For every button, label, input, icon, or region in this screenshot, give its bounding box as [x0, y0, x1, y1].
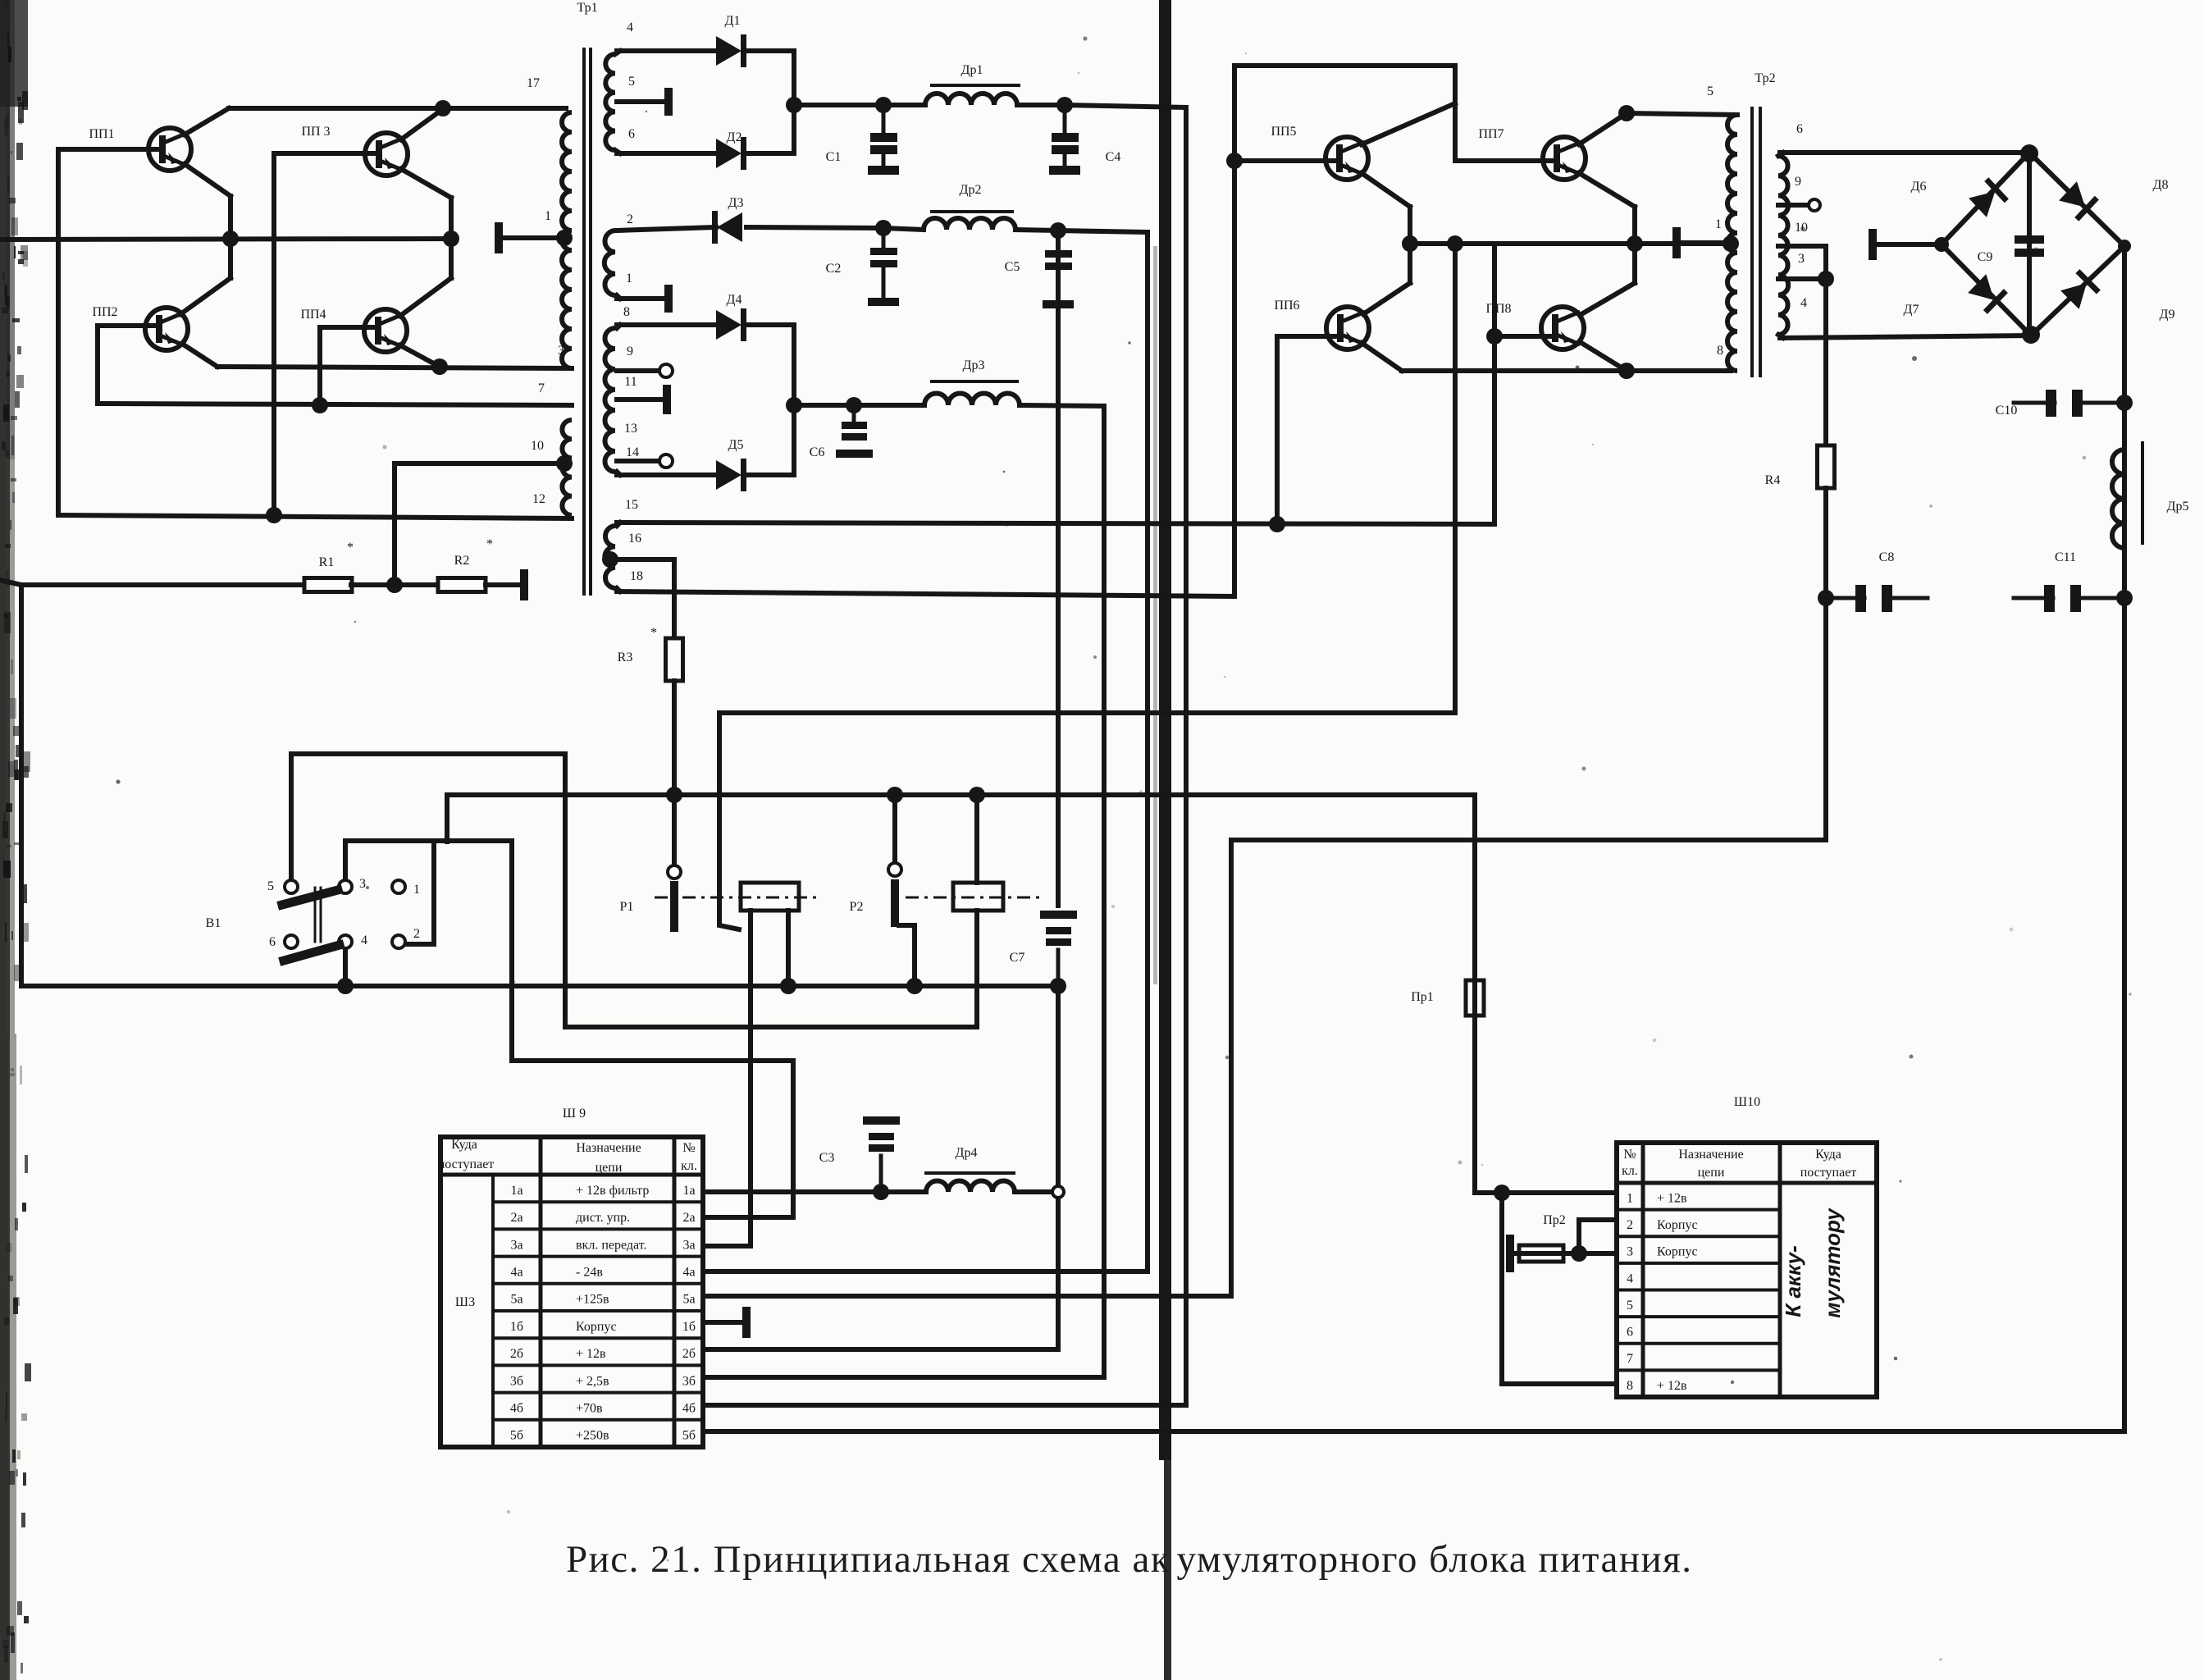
- svg-text:3а: 3а: [682, 1238, 695, 1252]
- svg-text:5: 5: [628, 75, 635, 89]
- svg-text:5: 5: [267, 879, 274, 893]
- svg-text:2б: 2б: [682, 1347, 696, 1361]
- svg-text:Др2: Др2: [960, 183, 982, 197]
- svg-text:R4: R4: [1765, 473, 1781, 487]
- svg-text:3: 3: [1798, 252, 1805, 266]
- svg-text:Тр2: Тр2: [1755, 71, 1775, 85]
- svg-text:Д8: Д8: [2153, 178, 2169, 192]
- svg-text:ПП4: ПП4: [300, 308, 326, 322]
- svg-text:+ 12в: + 12в: [1657, 1191, 1687, 1205]
- svg-text:R2: R2: [454, 554, 470, 568]
- svg-text:Др1: Др1: [961, 63, 983, 77]
- svg-text:14: 14: [626, 445, 639, 459]
- svg-text:1а: 1а: [682, 1184, 695, 1198]
- svg-text:5б: 5б: [510, 1429, 523, 1443]
- svg-text:ПП2: ПП2: [92, 305, 117, 319]
- svg-text:поступает: поступает: [438, 1157, 495, 1171]
- svg-text:R3: R3: [618, 651, 633, 664]
- svg-text:ПП7: ПП7: [1478, 127, 1504, 141]
- svg-text:Д7: Д7: [1904, 303, 1919, 317]
- svg-text:С7: С7: [1010, 951, 1025, 965]
- svg-text:4: 4: [1627, 1271, 1633, 1285]
- svg-text:8: 8: [623, 305, 630, 319]
- svg-text:- 24в: - 24в: [576, 1266, 603, 1280]
- svg-text:№: №: [1623, 1148, 1636, 1162]
- svg-text:13: 13: [624, 422, 637, 436]
- svg-text:Др3: Др3: [963, 358, 985, 372]
- svg-text:6: 6: [269, 935, 276, 949]
- svg-text:Д5: Д5: [728, 438, 744, 452]
- svg-text:В1: В1: [206, 916, 221, 930]
- svg-text:С10: С10: [1996, 404, 2018, 418]
- svg-text:Ш 9: Ш 9: [563, 1107, 586, 1121]
- svg-text:1б: 1б: [682, 1320, 696, 1334]
- svg-text:С5: С5: [1005, 260, 1020, 274]
- svg-text:1: 1: [545, 209, 551, 223]
- svg-text:С6: С6: [810, 445, 825, 459]
- svg-text:Др5: Др5: [2167, 500, 2189, 514]
- svg-text:+250в: +250в: [576, 1429, 609, 1443]
- svg-text:1: 1: [1627, 1191, 1633, 1205]
- svg-text:2: 2: [627, 212, 633, 226]
- svg-text:5а: 5а: [510, 1293, 522, 1307]
- svg-text:4б: 4б: [510, 1402, 523, 1416]
- svg-text:8: 8: [1717, 344, 1723, 358]
- svg-text:кл.: кл.: [681, 1159, 697, 1173]
- svg-text:1: 1: [1715, 217, 1722, 231]
- svg-text:+ 12в фильтр: + 12в фильтр: [576, 1184, 649, 1198]
- svg-text:7: 7: [538, 381, 545, 395]
- svg-text:цепи: цепи: [595, 1161, 623, 1175]
- svg-text:ПП1: ПП1: [89, 127, 114, 141]
- svg-text:Куда: Куда: [1815, 1148, 1841, 1162]
- svg-text:*: *: [486, 537, 493, 551]
- svg-text:вкл. передат.: вкл. передат.: [576, 1238, 646, 1252]
- svg-text:2а: 2а: [510, 1211, 522, 1225]
- svg-text:Корпус: Корпус: [1657, 1218, 1698, 1232]
- svg-text:С3: С3: [819, 1151, 835, 1165]
- svg-text:С8: С8: [1879, 550, 1895, 564]
- svg-text:3: 3: [1627, 1245, 1633, 1259]
- svg-text:7: 7: [1627, 1352, 1633, 1366]
- svg-text:Р2: Р2: [850, 900, 864, 914]
- svg-text:К акку-: К акку-: [1781, 1245, 1805, 1317]
- svg-text:3б: 3б: [510, 1374, 523, 1388]
- svg-text:6: 6: [1627, 1326, 1633, 1340]
- svg-text:4а: 4а: [510, 1266, 522, 1280]
- svg-text:Ш3: Ш3: [455, 1295, 475, 1309]
- svg-text:Рис. 21. Принципиальная схема: Рис. 21. Принципиальная схема акумулятор…: [566, 1538, 1693, 1581]
- svg-text:Корпус: Корпус: [1657, 1245, 1698, 1259]
- svg-text:ПП5: ПП5: [1271, 125, 1296, 139]
- svg-text:С9: С9: [1978, 250, 1993, 264]
- svg-text:Др4: Др4: [956, 1146, 978, 1160]
- svg-text:5б: 5б: [682, 1429, 696, 1443]
- svg-text:Д6: Д6: [1911, 180, 1927, 194]
- svg-text:Корпус: Корпус: [576, 1320, 617, 1334]
- svg-text:16: 16: [628, 532, 641, 546]
- svg-text:кл.: кл.: [1622, 1164, 1638, 1178]
- svg-text:№: №: [682, 1141, 695, 1155]
- svg-text:Д1: Д1: [725, 14, 741, 28]
- svg-text:*: *: [347, 541, 354, 555]
- svg-text:1б: 1б: [510, 1320, 523, 1334]
- svg-text:10: 10: [531, 439, 544, 453]
- svg-text:С2: С2: [826, 262, 842, 276]
- svg-text:3а: 3а: [510, 1238, 522, 1252]
- svg-text:С1: С1: [826, 150, 842, 164]
- svg-text:6: 6: [628, 127, 635, 141]
- svg-text:2а: 2а: [682, 1211, 695, 1225]
- svg-text:*: *: [650, 626, 657, 640]
- svg-text:17: 17: [527, 76, 540, 90]
- svg-text:11: 11: [624, 375, 637, 389]
- svg-text:1: 1: [626, 272, 632, 285]
- svg-text:дист. упр.: дист. упр.: [576, 1211, 630, 1225]
- svg-text:С11: С11: [2055, 550, 2076, 564]
- svg-text:+ 12в: + 12в: [576, 1347, 606, 1361]
- svg-text:ПП8: ПП8: [1485, 302, 1511, 316]
- svg-text:2б: 2б: [510, 1347, 523, 1361]
- svg-text:5а: 5а: [682, 1293, 695, 1307]
- svg-text:Тр1: Тр1: [577, 1, 597, 15]
- svg-text:Куда: Куда: [451, 1138, 477, 1152]
- svg-text:2: 2: [1627, 1218, 1633, 1232]
- svg-text:4а: 4а: [682, 1266, 695, 1280]
- svg-text:Назначение: Назначение: [576, 1141, 641, 1155]
- svg-text:+125в: +125в: [576, 1293, 609, 1307]
- svg-text:Д9: Д9: [2160, 308, 2175, 322]
- svg-text:1а: 1а: [510, 1184, 522, 1198]
- svg-text:Назначение: Назначение: [1678, 1148, 1743, 1162]
- svg-text:18: 18: [630, 569, 643, 583]
- svg-text:3: 3: [558, 344, 564, 358]
- svg-text:1: 1: [413, 883, 420, 897]
- svg-text:Д4: Д4: [727, 293, 742, 307]
- svg-text:Пр1: Пр1: [1411, 990, 1434, 1004]
- svg-text:4б: 4б: [682, 1402, 696, 1416]
- svg-text:цепи: цепи: [1698, 1166, 1725, 1180]
- svg-text:12: 12: [532, 492, 545, 506]
- svg-text:4: 4: [627, 21, 633, 34]
- svg-text:ПП6: ПП6: [1274, 299, 1299, 313]
- svg-text:поступает: поступает: [1800, 1166, 1857, 1180]
- svg-text:Д3: Д3: [728, 196, 744, 210]
- svg-text:4: 4: [1800, 296, 1807, 310]
- svg-text:Пр2: Пр2: [1543, 1213, 1566, 1227]
- svg-text:2: 2: [413, 927, 420, 941]
- svg-text:4: 4: [361, 934, 367, 947]
- svg-text:15: 15: [625, 498, 638, 512]
- svg-text:3б: 3б: [682, 1374, 696, 1388]
- svg-text:ПП 3: ПП 3: [301, 125, 330, 139]
- svg-text:С4: С4: [1106, 150, 1121, 164]
- svg-text:6: 6: [1796, 122, 1803, 136]
- svg-text:Р1: Р1: [620, 900, 634, 914]
- svg-text:+ 12в: + 12в: [1657, 1379, 1687, 1393]
- svg-text:R1: R1: [319, 555, 335, 569]
- svg-text:9: 9: [1795, 175, 1801, 189]
- svg-text:5: 5: [1627, 1299, 1633, 1312]
- svg-text:8: 8: [1627, 1379, 1633, 1393]
- svg-text:9: 9: [627, 345, 633, 358]
- svg-text:мулятору: мулятору: [1820, 1207, 1845, 1318]
- svg-text:Ш10: Ш10: [1734, 1095, 1760, 1109]
- svg-text:Д2: Д2: [727, 130, 742, 144]
- svg-text:+ 2,5в: + 2,5в: [576, 1374, 609, 1388]
- svg-text:+70в: +70в: [576, 1402, 603, 1416]
- svg-text:5: 5: [1707, 84, 1713, 98]
- svg-text:3: 3: [359, 877, 366, 891]
